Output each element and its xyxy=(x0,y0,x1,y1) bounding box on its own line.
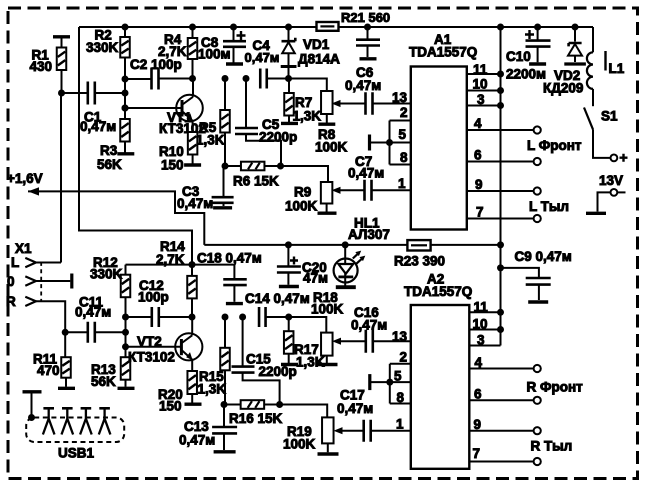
output terminal L rear pin9 xyxy=(534,187,541,194)
svg-text:C2 100p: C2 100p xyxy=(130,57,182,72)
svg-text:6: 6 xyxy=(474,148,482,163)
svg-text:10: 10 xyxy=(473,317,488,332)
pin 9 A1 xyxy=(467,190,534,192)
svg-text:6: 6 xyxy=(474,387,482,402)
svg-text:0,47м: 0,47м xyxy=(80,119,116,134)
svg-text:1,3K: 1,3K xyxy=(296,354,325,369)
svg-text:100K: 100K xyxy=(283,437,316,452)
svg-text:4: 4 xyxy=(474,116,482,131)
USB1 contact 2 xyxy=(62,407,73,410)
resistor R5 xyxy=(224,79,226,111)
resistor R10 xyxy=(188,132,198,155)
resistor R2 xyxy=(124,27,126,37)
svg-text:0,47м: 0,47м xyxy=(177,196,213,211)
capacitor C18 xyxy=(233,265,235,279)
wiper arrow R8 xyxy=(339,103,366,105)
pin 10 A1 xyxy=(467,90,501,92)
svg-text:100K: 100K xyxy=(311,302,344,317)
switch S1 xyxy=(592,89,594,106)
svg-text:L Тыл: L Тыл xyxy=(529,199,569,214)
wiper arrow R19 xyxy=(341,430,364,432)
svg-text:АЛ307: АЛ307 xyxy=(348,227,390,242)
output terminal L rear pin7 xyxy=(534,215,541,222)
ground at pin 5 A2 xyxy=(368,374,371,390)
svg-text:2200м: 2200м xyxy=(506,67,546,82)
capacitor C1 xyxy=(61,92,88,94)
svg-text:TDA1557Q: TDA1557Q xyxy=(404,284,472,299)
svg-text:10: 10 xyxy=(473,77,488,92)
svg-text:2: 2 xyxy=(400,105,408,120)
svg-text:100м: 100м xyxy=(198,46,231,61)
capacitor C10 xyxy=(537,27,539,41)
svg-text:13: 13 xyxy=(392,90,408,105)
output terminal R front pin4 xyxy=(534,365,541,372)
potentiometer R8 xyxy=(321,91,333,114)
svg-text:150: 150 xyxy=(161,158,184,173)
inductor L1 xyxy=(592,27,594,52)
capacitor C11 xyxy=(65,331,88,333)
svg-text:9: 9 xyxy=(474,417,482,432)
svg-text:150: 150 xyxy=(159,399,182,414)
wire left vertical from top rail xyxy=(79,27,192,265)
svg-text:330K: 330K xyxy=(90,267,123,282)
svg-text:2200p: 2200p xyxy=(259,130,297,145)
capacitor C3 xyxy=(223,166,225,197)
svg-text:C9 0,47м: C9 0,47м xyxy=(515,249,572,264)
terminal battery plus xyxy=(611,155,618,162)
resistor R20 xyxy=(187,371,197,394)
potentiometer R17 xyxy=(321,333,333,356)
svg-text:+1,6V: +1,6V xyxy=(7,171,43,186)
USB1 contact 4 xyxy=(99,407,110,410)
ground at pin 5 A1 xyxy=(368,135,371,151)
svg-text:8: 8 xyxy=(400,150,408,165)
capacitor C8 xyxy=(233,27,235,41)
pin 6 A1 xyxy=(467,161,534,163)
output terminal R rear pin9 xyxy=(534,427,541,434)
pin 10 A2 xyxy=(469,329,500,331)
pin 7 A2 xyxy=(469,461,533,463)
svg-text:1,3K: 1,3K xyxy=(198,382,227,397)
pin 3 A2 xyxy=(469,345,500,347)
svg-text:8: 8 xyxy=(397,390,405,405)
wire R6 R9 node xyxy=(225,165,241,167)
output terminal L front pin6 xyxy=(534,158,541,165)
svg-text:VT2: VT2 xyxy=(137,334,162,349)
resistor R6 xyxy=(241,162,265,171)
svg-text:X1: X1 xyxy=(15,241,32,256)
svg-text:R9: R9 xyxy=(294,185,311,200)
svg-text:C10: C10 xyxy=(506,49,531,64)
svg-text:R Тыл: R Тыл xyxy=(531,439,573,454)
wire R12 R14 top link xyxy=(126,264,235,266)
svg-text:100K: 100K xyxy=(285,199,318,214)
pins 2-5-8 bracket A1 xyxy=(389,121,391,165)
pin 8 A2 xyxy=(390,403,411,405)
svg-text:R23 390: R23 390 xyxy=(394,254,445,269)
resistor R1 xyxy=(53,35,70,38)
pin 5 A2 xyxy=(390,381,411,383)
svg-text:7: 7 xyxy=(476,205,484,220)
svg-text:9: 9 xyxy=(475,177,483,192)
svg-text:0,47м: 0,47м xyxy=(179,433,215,448)
capacitor C2 xyxy=(152,68,159,90)
wire to R9 xyxy=(281,166,329,182)
potentiometer R19 xyxy=(322,417,334,443)
svg-text:R16 15K: R16 15K xyxy=(229,411,283,426)
wire upper bias to R8 xyxy=(289,79,327,92)
svg-text:0,47м: 0,47м xyxy=(348,166,384,181)
capacitor C20 xyxy=(287,245,289,266)
svg-text:C14 0,47м: C14 0,47м xyxy=(245,291,310,306)
capacitor C13 xyxy=(223,405,225,428)
connector X1 dashed link xyxy=(40,262,42,302)
resistor R14 xyxy=(191,265,193,276)
pin 3 A1 xyxy=(467,105,501,107)
transistor VT1 xyxy=(176,95,203,122)
pin 2 A2 xyxy=(390,363,411,365)
wire R16 node xyxy=(225,404,241,406)
terminal battery minus xyxy=(611,189,618,196)
svg-text:L: L xyxy=(11,255,19,270)
capacitor C5 xyxy=(245,79,247,129)
pin 7 A1 xyxy=(467,218,534,220)
svg-text:2: 2 xyxy=(400,350,408,365)
pin 11 A1 xyxy=(467,73,501,75)
svg-text:5: 5 xyxy=(394,368,402,383)
svg-text:0,47м: 0,47м xyxy=(245,50,280,65)
svg-text:R Фронт: R Фронт xyxy=(527,379,584,394)
resistor R15 xyxy=(224,317,226,348)
capacitor C9 xyxy=(501,268,539,278)
svg-text:КТ3102: КТ3102 xyxy=(128,350,175,365)
supply vertical node xyxy=(500,27,502,346)
capacitor C4 xyxy=(260,69,267,89)
svg-text:КД209: КД209 xyxy=(543,81,583,96)
svg-text:13: 13 xyxy=(392,329,408,344)
svg-text:470: 470 xyxy=(37,363,60,378)
ground battery xyxy=(598,192,611,211)
svg-text:56K: 56K xyxy=(97,157,122,172)
svg-text:2,7K: 2,7K xyxy=(158,44,187,59)
resistor R16 xyxy=(241,400,265,409)
svg-text:USB1: USB1 xyxy=(58,446,95,461)
svg-text:C18 0,47м: C18 0,47м xyxy=(197,250,262,265)
svg-text:1,3K: 1,3K xyxy=(293,109,322,124)
capacitor C14 xyxy=(259,307,266,327)
svg-text:3: 3 xyxy=(477,333,485,348)
wire top supply rail xyxy=(79,26,593,28)
pin 8 A1 xyxy=(390,164,411,166)
svg-text:0,47м: 0,47м xyxy=(337,401,373,416)
svg-text:430: 430 xyxy=(30,59,53,74)
svg-text:0: 0 xyxy=(7,274,15,289)
wire to battery plus xyxy=(593,130,611,158)
pin 2 A1 xyxy=(390,120,411,122)
node input L vertical xyxy=(60,93,62,263)
resistor R3 xyxy=(120,119,130,142)
led HL1 xyxy=(342,241,349,248)
svg-text:R21 560: R21 560 xyxy=(341,10,390,25)
svg-text:56K: 56K xyxy=(91,374,116,389)
capacitor hanging from rail near C6 xyxy=(367,27,369,40)
connector USB1 xyxy=(26,418,124,443)
svg-text:R3: R3 xyxy=(100,143,118,158)
svg-text:330K: 330K xyxy=(86,40,119,55)
svg-text:0,47м: 0,47м xyxy=(351,318,387,333)
svg-text:100K: 100K xyxy=(315,140,348,155)
pin 4 A2 xyxy=(469,368,533,370)
USB1 contact 3 xyxy=(81,407,92,410)
capacitor C15 xyxy=(242,317,244,367)
pin 11 A2 xyxy=(469,311,500,313)
svg-text:7: 7 xyxy=(473,446,481,461)
potentiometer R9 xyxy=(321,182,333,204)
svg-text:1: 1 xyxy=(398,176,406,191)
pin 5 A1 xyxy=(390,142,411,144)
svg-text:1: 1 xyxy=(396,417,404,432)
output terminal R rear pin7 xyxy=(534,458,541,465)
resistor R4 xyxy=(192,27,194,38)
output terminal R front pin6 xyxy=(534,397,541,404)
svg-text:Д814А: Д814А xyxy=(298,52,340,67)
resistor R23 xyxy=(407,240,430,250)
resistor R12 xyxy=(125,265,127,275)
resistor R7 xyxy=(288,79,290,94)
resistor R11 xyxy=(62,329,69,336)
svg-text:5: 5 xyxy=(399,127,407,142)
pin 6 A2 xyxy=(469,399,533,401)
svg-text:0,47м: 0,47м xyxy=(345,78,381,93)
pin 9 A2 xyxy=(469,430,533,432)
zener diode VD1 xyxy=(288,27,290,41)
svg-text:11: 11 xyxy=(473,62,488,77)
transistor VT2 xyxy=(175,333,202,360)
wire to R19 xyxy=(280,405,328,418)
svg-text:13V: 13V xyxy=(599,173,623,188)
svg-text:4: 4 xyxy=(475,355,483,370)
wire +1.6V xyxy=(28,191,204,245)
wire middle supply rail xyxy=(204,244,500,246)
svg-text:VD1: VD1 xyxy=(303,37,330,52)
pins 2-5-8 bracket A2 xyxy=(389,364,391,404)
svg-text:3: 3 xyxy=(477,92,485,107)
svg-text:TDA1557Q: TDA1557Q xyxy=(409,45,477,60)
USB1 contact 1 xyxy=(43,407,54,410)
output terminal L front pin4 xyxy=(534,126,541,133)
pin 4 A1 xyxy=(467,129,534,131)
svg-text:0,47м: 0,47м xyxy=(75,305,111,320)
diode VD2 xyxy=(574,27,576,42)
svg-text:11: 11 xyxy=(474,300,489,315)
svg-text:2,7K: 2,7K xyxy=(156,252,185,267)
wire lower bias to R17 xyxy=(289,317,327,333)
capacitor C12 xyxy=(126,316,153,318)
resistor R13 xyxy=(121,357,131,380)
svg-text:S1: S1 xyxy=(601,109,618,124)
svg-text:R6 15K: R6 15K xyxy=(233,174,279,189)
resistor R18 xyxy=(288,317,290,331)
wire collector line upper xyxy=(125,78,152,80)
svg-text:1,3K: 1,3K xyxy=(196,133,225,148)
ground USB shield xyxy=(23,390,42,393)
svg-text:100p: 100p xyxy=(138,290,169,305)
wiper arrow R17 xyxy=(339,340,366,342)
svg-text:47м: 47м xyxy=(303,271,328,286)
svg-text:L Фронт: L Фронт xyxy=(527,138,582,153)
svg-text:R: R xyxy=(6,294,16,309)
svg-text:L1: L1 xyxy=(609,61,625,76)
